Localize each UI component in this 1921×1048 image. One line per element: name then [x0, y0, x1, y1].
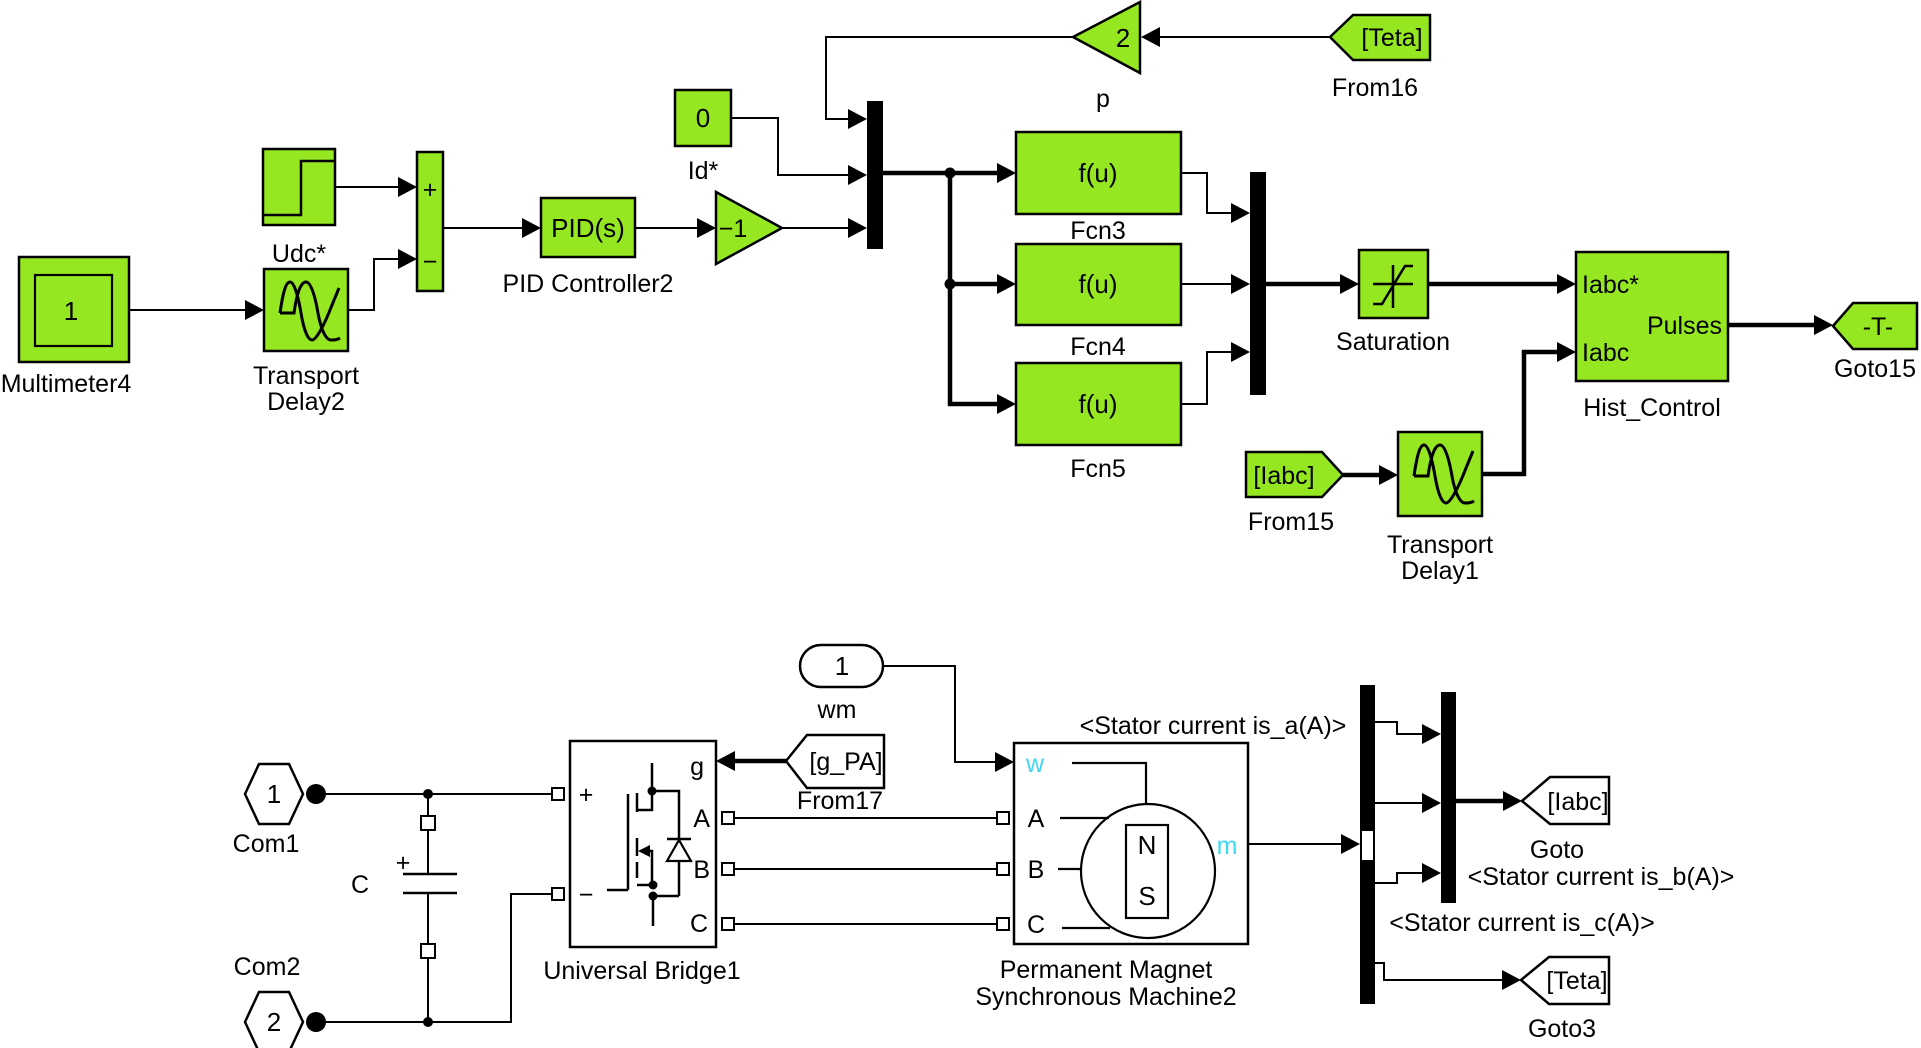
svg-text:PID(s): PID(s): [551, 213, 625, 243]
svg-text:Delay2: Delay2: [267, 388, 345, 416]
svg-text:From17: From17: [797, 787, 883, 815]
wire Transport Delay2 to Sum minus: [348, 249, 417, 310]
svg-text:p: p: [1096, 85, 1110, 113]
svg-text:2: 2: [1116, 23, 1130, 53]
svg-text:Com1: Com1: [233, 830, 300, 858]
wire From17 to bridge g (thick): [716, 751, 786, 771]
svg-text:Delay1: Delay1: [1401, 557, 1479, 585]
wire Mux1 output to Fcn3 (thick, with branches): [883, 163, 1016, 183]
block Fcn3: [1016, 132, 1181, 245]
svg-text:Transport: Transport: [1387, 531, 1493, 559]
wire Com1 to bridge +: [316, 789, 552, 799]
svg-text:Multimeter4: Multimeter4: [1, 370, 132, 398]
wire Com2 to bridge -: [316, 894, 552, 1027]
bridge MOSFET/diode icon: [607, 763, 691, 926]
svg-text:g: g: [690, 753, 704, 781]
svg-text:A: A: [693, 805, 710, 833]
block Hist_Control: [1576, 252, 1728, 422]
PMSM rotor icon: [1058, 763, 1215, 938]
svg-text:Goto15: Goto15: [1834, 355, 1916, 383]
svg-text:wm: wm: [817, 696, 857, 724]
svg-text:[Teta]: [Teta]: [1546, 967, 1607, 995]
port Com2: [234, 953, 326, 1048]
svg-text:−: −: [423, 248, 438, 276]
svg-text:S: S: [1138, 881, 1155, 911]
wire Sum to PID Controller2: [443, 218, 541, 238]
svg-text:Permanent Magnet: Permanent Magnet: [1000, 956, 1213, 984]
svg-text:[Iabc]: [Iabc]: [1253, 462, 1314, 490]
svg-text:Transport: Transport: [253, 362, 359, 390]
block PID Controller2: [503, 198, 674, 298]
From15 tag [Iabc]: [1246, 452, 1343, 536]
Goto15 tag -T-: [1833, 303, 1917, 383]
svg-text:C: C: [1027, 911, 1045, 939]
svg-text:Universal Bridge1: Universal Bridge1: [543, 957, 740, 985]
block Transport Delay2: [253, 269, 359, 416]
From16 tag [Teta]: [1330, 15, 1430, 102]
block Universal Bridge1: [543, 741, 740, 985]
svg-text:<Stator current is_c(A)>: <Stator current is_c(A)>: [1389, 909, 1654, 937]
wire Mux3 to Goto [Iabc] (thick): [1456, 791, 1522, 811]
svg-text:[Iabc]: [Iabc]: [1547, 788, 1608, 816]
svg-text:0: 0: [696, 103, 710, 133]
gain 2 (p): [1073, 2, 1140, 113]
svg-text:Iabc*: Iabc*: [1582, 271, 1639, 299]
svg-text:1: 1: [64, 296, 78, 326]
svg-text:<Stator current is_a(A)>: <Stator current is_a(A)>: [1080, 712, 1347, 740]
port Com1: [233, 764, 326, 858]
wire Fcn4 to Mux2 port2: [1181, 274, 1250, 294]
wire Udc* to Sum plus: [335, 177, 417, 197]
svg-text:C: C: [351, 871, 369, 899]
svg-text:−: −: [579, 881, 594, 909]
mux Mux2: [1250, 172, 1266, 395]
svg-text:<Stator current is_b(A)>: <Stator current is_b(A)>: [1468, 863, 1735, 891]
block Permanent Magnet Synchronous Machine2: [975, 743, 1248, 1011]
wire demux out3 to Mux3: [1375, 863, 1441, 883]
wire branch down to Fcn4/Fcn5: [945, 173, 1017, 414]
svg-text:B: B: [693, 856, 710, 884]
svg-text:−1: −1: [719, 215, 748, 243]
Goto3 tag [Teta]: [1521, 957, 1609, 1043]
svg-text:Goto3: Goto3: [1528, 1015, 1596, 1043]
svg-text:Goto: Goto: [1530, 836, 1584, 864]
svg-text:-T-: -T-: [1863, 313, 1894, 341]
svg-text:Iabc: Iabc: [1582, 339, 1629, 367]
wire Hist_Control Pulses to Goto15 (thick): [1728, 315, 1833, 335]
svg-text:1: 1: [835, 651, 849, 681]
svg-text:PID Controller2: PID Controller2: [503, 270, 674, 298]
capacitor C: [351, 794, 457, 1022]
wire PMSM m to Demux: [1248, 834, 1360, 854]
wire Transport Delay1 to Hist_Control Iabc (thick): [1482, 342, 1576, 474]
wire Fcn5 to Mux2 port3: [1181, 342, 1250, 404]
sum block (+/-): [417, 152, 443, 291]
wire bridge A to PMSM A: [734, 817, 997, 819]
wire Multimeter4 to Transport Delay2: [129, 300, 264, 320]
wire Gain -1 to Mux1 port3: [782, 218, 867, 238]
gain -1: [716, 192, 782, 264]
wire Fcn3 to Mux2 port1: [1181, 173, 1250, 223]
wire wm to PMSM w: [883, 666, 1014, 772]
demux bus selector bar: [1360, 685, 1375, 1004]
wire Mux2 to Saturation (thick): [1266, 274, 1359, 294]
wire gain 2 to Mux1 port1: [826, 37, 1073, 129]
svg-text:Com2: Com2: [234, 953, 301, 981]
svg-text:N: N: [1138, 830, 1157, 860]
svg-text:Id*: Id*: [688, 157, 719, 185]
svg-text:C: C: [690, 910, 708, 938]
svg-text:Fcn5: Fcn5: [1070, 455, 1126, 483]
svg-text:[Teta]: [Teta]: [1361, 24, 1422, 52]
constant block 0 (Id*): [675, 90, 731, 185]
wire demux out4 to Goto3: [1375, 963, 1521, 990]
svg-text:Fcn4: Fcn4: [1070, 333, 1126, 361]
block Multimeter4: [1, 257, 132, 398]
block Udc* (step source): [263, 149, 335, 268]
wire demux out1 to Mux3: [1375, 722, 1441, 744]
svg-text:w: w: [1025, 750, 1045, 778]
wire demux out2 to Mux3: [1375, 793, 1441, 813]
svg-text:[g_PA]: [g_PA]: [809, 748, 882, 776]
svg-text:A: A: [1028, 805, 1045, 833]
svg-text:m: m: [1217, 832, 1238, 860]
svg-text:f(u): f(u): [1079, 269, 1118, 299]
svg-text:From16: From16: [1332, 74, 1418, 102]
svg-text:f(u): f(u): [1079, 158, 1118, 188]
svg-text:2: 2: [267, 1007, 281, 1037]
svg-text:+: +: [579, 781, 594, 809]
svg-text:From15: From15: [1248, 508, 1334, 536]
wire bridge B to PMSM B: [734, 868, 997, 870]
svg-text:1: 1: [267, 779, 281, 809]
inport wm (1): [800, 645, 883, 724]
wire From16 to gain 2: [1141, 27, 1330, 47]
mux Mux1: [867, 101, 883, 249]
block Transport Delay1: [1387, 432, 1493, 585]
wire PID to Gain -1: [635, 218, 716, 238]
block Fcn5: [1016, 363, 1181, 483]
svg-text:Saturation: Saturation: [1336, 328, 1450, 356]
block Fcn4: [1016, 244, 1181, 361]
svg-text:Udc*: Udc*: [272, 240, 326, 268]
svg-text:Synchronous Machine2: Synchronous Machine2: [975, 983, 1236, 1011]
mux Mux3 (stator currents): [1441, 692, 1456, 903]
svg-text:f(u): f(u): [1079, 389, 1118, 419]
wire branch to Fcn4: [950, 274, 1016, 294]
svg-text:Fcn3: Fcn3: [1070, 217, 1126, 245]
wire Saturation to Hist_Control Iabc* (thick): [1428, 274, 1576, 294]
svg-text:B: B: [1028, 856, 1045, 884]
wire From15 to Transport Delay1 (thick): [1343, 465, 1398, 485]
block Saturation: [1336, 250, 1450, 356]
svg-text:Pulses: Pulses: [1647, 312, 1722, 340]
svg-text:+: +: [423, 176, 438, 204]
svg-text:Hist_Control: Hist_Control: [1583, 394, 1721, 422]
wire Id* to Mux1 port2: [731, 118, 867, 185]
Goto tag [Iabc]: [1522, 777, 1609, 864]
svg-text:+: +: [396, 849, 411, 877]
From17 tag [g_PA]: [786, 735, 884, 815]
wire bridge C to PMSM C: [734, 923, 997, 925]
